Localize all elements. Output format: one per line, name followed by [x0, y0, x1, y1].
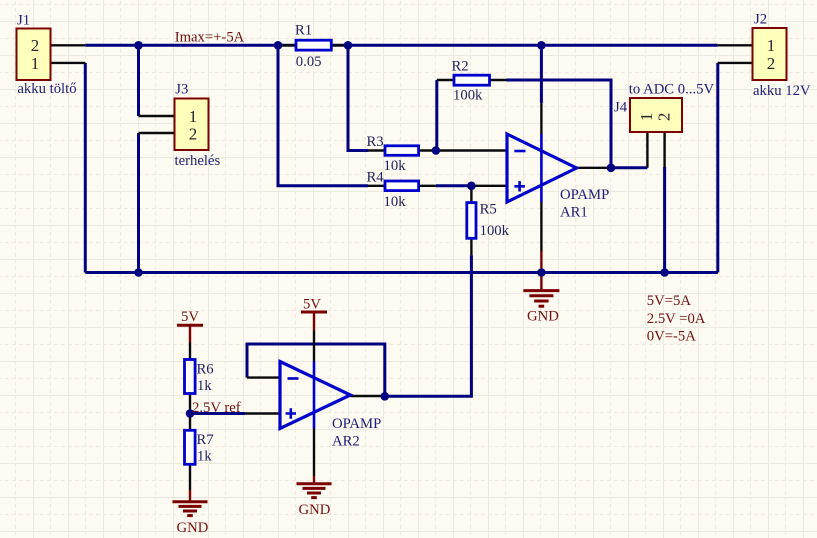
- svg-text:GND: GND: [177, 520, 209, 536]
- pin: R1 right: [331, 44, 348, 46]
- pin: R2 right: [490, 79, 507, 81]
- pin: R3 right to AR1 minus: [419, 149, 507, 151]
- ground left divider: [173, 490, 208, 516]
- svg-text:10k: 10k: [384, 158, 407, 174]
- pin: J3 pin1: [139, 115, 175, 117]
- svg-text:R7: R7: [197, 432, 214, 448]
- svg-text:1: 1: [189, 107, 198, 126]
- svg-text:2: 2: [654, 113, 673, 122]
- pin: R4 left: [368, 185, 385, 187]
- wire: right riser to J2 pin2: [716, 63, 719, 273]
- svg-text:GND: GND: [299, 502, 331, 518]
- wire: top bus y=45: [85, 44, 718, 47]
- pin: AR2 power top: [313, 331, 315, 362]
- resistor R1: [296, 40, 331, 50]
- pin: AR2 plus input: [245, 412, 280, 414]
- svg-text:Imax=+-5A: Imax=+-5A: [175, 30, 245, 46]
- svg-text:R3: R3: [367, 134, 384, 150]
- svg-text:R2: R2: [452, 59, 469, 75]
- op-amp AR2: [280, 362, 350, 429]
- svg-text:0V=-5A: 0V=-5A: [647, 328, 696, 344]
- pin: AR1 power bottom: [540, 202, 542, 252]
- pin: J3 pin2: [139, 132, 175, 134]
- svg-text:AR2: AR2: [332, 434, 360, 450]
- svg-text:to ADC 0...5V: to ADC 0...5V: [629, 82, 715, 98]
- pin: R3 left: [368, 149, 385, 151]
- wire: J4 pin2 down to bus: [663, 167, 666, 273]
- pin: R5 top: [470, 186, 472, 203]
- pin: AR1 output: [577, 167, 612, 169]
- wire: AR1 V+ column from top bus: [540, 45, 543, 103]
- pin: AR2 minus input: [247, 376, 280, 378]
- svg-text:100k: 100k: [453, 88, 483, 104]
- svg-text:2: 2: [189, 125, 198, 144]
- pin: R1 left: [278, 44, 296, 46]
- pin: R6 top: [189, 343, 191, 360]
- wire: R2 left vertical to minus node: [435, 80, 438, 151]
- pin: J1 pin2: [51, 44, 86, 46]
- power 5V left: [177, 325, 203, 342]
- pin: J4 pin1: [646, 132, 648, 168]
- svg-text:5V: 5V: [181, 309, 199, 325]
- op-amp AR1 internal power line: [540, 134, 543, 202]
- svg-text:akku 12V: akku 12V: [753, 83, 811, 99]
- resistor R2: [454, 75, 490, 85]
- op-amp AR2 internal power line: [313, 362, 316, 429]
- pin: AR1 plus input: [471, 185, 507, 187]
- svg-text:R6: R6: [197, 362, 214, 378]
- svg-text:AR1: AR1: [560, 205, 588, 221]
- svg-text:OPAMP: OPAMP: [560, 187, 609, 203]
- pin: J1 pin1: [51, 62, 86, 64]
- connector J3: [175, 99, 209, 151]
- svg-text:1: 1: [767, 36, 776, 55]
- connector J1: [17, 29, 51, 81]
- svg-text:100k: 100k: [480, 223, 510, 239]
- svg-text:R5: R5: [480, 202, 497, 218]
- svg-text:R1: R1: [295, 23, 312, 39]
- wire: J3 pin2 column: [137, 133, 140, 273]
- wire: AR1 output to J4 pin1: [611, 166, 647, 169]
- pin: AR2 output: [350, 395, 384, 397]
- resistor R4: [385, 181, 419, 191]
- svg-text:1k: 1k: [197, 378, 212, 394]
- svg-text:2.5V ref: 2.5V ref: [192, 400, 241, 416]
- pin: AR2 power bottom: [313, 429, 315, 477]
- connector J2: [753, 28, 787, 80]
- resistor R3: [385, 146, 419, 156]
- svg-text:1k: 1k: [197, 449, 212, 465]
- svg-text:2: 2: [767, 54, 776, 73]
- wire: R2 right to AR1 output: [507, 80, 612, 168]
- connector J4: [630, 98, 682, 132]
- svg-text:10k: 10k: [384, 194, 407, 210]
- svg-text:5V: 5V: [303, 297, 321, 313]
- pin: J2 pin2: [718, 62, 753, 64]
- wire: AR2 feedback loop: [247, 344, 385, 396]
- svg-text:J2: J2: [754, 12, 767, 28]
- svg-text:2.5V =0A: 2.5V =0A: [647, 311, 706, 327]
- svg-text:GND: GND: [527, 309, 559, 325]
- wire: J3 pin1 column: [137, 45, 140, 116]
- svg-text:2: 2: [31, 36, 40, 55]
- svg-text:1: 1: [637, 113, 656, 122]
- svg-text:5V=5A: 5V=5A: [647, 293, 692, 309]
- wire: bottom bus y=272.5: [85, 271, 718, 274]
- svg-text:terhelés: terhelés: [175, 153, 221, 169]
- ground AR1: [523, 251, 559, 306]
- wire: plus node segment: [436, 184, 472, 187]
- pin: AR1 power top: [540, 103, 542, 134]
- svg-text:akku töltő: akku töltő: [17, 81, 76, 97]
- resistor R6: [185, 360, 196, 394]
- wire: R3 sense column from R1 right: [348, 45, 368, 150]
- wire: R5 bottom to AR2 output: [385, 255, 472, 396]
- pin: R4 right: [419, 185, 436, 187]
- svg-text:J3: J3: [175, 82, 188, 98]
- wire: 2.5V ref to AR2 plus: [190, 412, 245, 415]
- resistor R5: [467, 203, 476, 239]
- svg-text:J4: J4: [614, 100, 628, 116]
- pin: J4 pin2: [663, 132, 665, 167]
- svg-text:R4: R4: [367, 169, 385, 185]
- wire: left drop from J1 pin1 to bottom bus: [84, 63, 87, 273]
- pin: R5 bottom: [470, 238, 472, 255]
- pin: J2 pin1: [718, 44, 753, 46]
- svg-text:OPAMP: OPAMP: [332, 416, 381, 432]
- power 5V AR2: [301, 312, 327, 331]
- op-amp AR1: [507, 134, 577, 202]
- resistor R7: [185, 430, 196, 464]
- svg-text:0.05: 0.05: [296, 54, 322, 70]
- wire: R4 sense column from R1 left: [278, 45, 368, 186]
- pin: R6 bottom: [189, 394, 191, 414]
- pin: R2 left: [437, 79, 454, 81]
- ground AR2: [297, 476, 332, 498]
- pin: R7 bottom: [189, 464, 191, 490]
- pin: R7 top: [189, 414, 191, 431]
- svg-text:J1: J1: [17, 13, 30, 29]
- svg-text:1: 1: [31, 54, 40, 73]
